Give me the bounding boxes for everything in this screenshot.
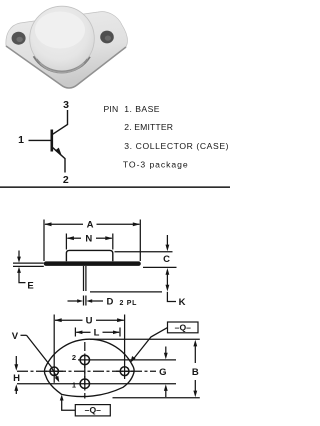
dim C extension line (cap top) [115,251,173,253]
svg-text:N: N [85,234,92,245]
dim N dimension line [67,237,81,239]
right hole crosshair [116,370,134,372]
side view: pin [83,266,85,291]
dim G top arrowhead [164,353,168,360]
svg-text:–Q–: –Q– [175,323,191,333]
side view: can cap [66,250,112,261]
left hole crosshair [46,370,64,372]
dim G arrow shafts [165,347,167,354]
dim K arrow shaft [166,272,168,288]
dim K bracket [167,292,176,302]
pin end extension line [90,291,162,293]
dim D left arrowhead [77,299,83,303]
dim U extension line right [124,315,126,380]
pin 1 circle [80,379,89,388]
svg-text:3: 3 [63,99,69,111]
photo: can bottom rim [37,59,88,72]
photo: right mounting hole [100,31,114,44]
dim L extension tick right [119,328,121,337]
dim N right arrowhead [105,236,112,240]
photo: metal can [30,6,95,71]
svg-text:G: G [159,367,166,378]
svg-text:K: K [179,297,186,308]
separator line [0,186,230,188]
svg-text:H: H [13,373,20,384]
dim A right arrowhead [133,222,140,226]
pins crosshair vertical [84,355,86,390]
dim A extension line right [139,220,141,262]
dim B arrow shafts [194,345,196,363]
dim L dimension line [76,331,90,333]
svg-text:3. COLLECTOR (CASE): 3. COLLECTOR (CASE) [124,141,229,151]
dim N extension tick left [65,234,67,250]
bottom view: flange outline [45,339,135,396]
dim L left arrowhead [76,331,83,335]
transistor symbol: base lead (pin 1) [29,139,52,141]
svg-text:C: C [163,254,170,265]
svg-text:TO-3 package: TO-3 package [123,159,189,169]
photo: flange lower edge shadow [6,46,126,88]
datum Q (bottom) leader [62,397,76,411]
dim C arrowhead [166,245,170,252]
dim L extension tick left [74,328,76,337]
dim V leader dash [21,334,27,336]
dim E bottom arrowhead [17,267,21,273]
svg-text:PIN: PIN [104,104,119,114]
dim B extension line bottom [113,397,200,399]
svg-text:L: L [94,328,100,339]
svg-text:D: D [107,297,114,308]
svg-text:–Q–: –Q– [85,405,101,415]
transistor symbol: emitter lead (pin 2) [52,147,65,173]
dim E top arrowhead [17,257,21,263]
svg-text:2: 2 [63,174,69,186]
side view: flange [44,261,141,266]
dim H bottom arrowhead [14,384,18,391]
dim B top arrowhead [193,340,197,347]
svg-text:2 PL: 2 PL [120,300,138,307]
photo: left mounting hole [12,32,26,45]
photo: can top highlight [35,12,85,49]
dim L right arrowhead [113,331,120,335]
datum Q (top) leader [133,328,168,360]
svg-text:1: 1 [18,134,24,146]
right mounting hole [120,367,129,376]
dim A extension line left [43,220,45,262]
dim U left arrowhead [54,318,61,322]
dim H arrow shafts [15,356,17,365]
dim G bottom arrowhead [164,384,168,391]
pin 2 circle [80,355,89,364]
svg-text:B: B [192,367,199,378]
svg-text:1. BASE: 1. BASE [124,104,160,114]
vertical centerline through pins [84,342,86,399]
dim K top arrowhead [166,268,170,275]
transistor symbol: base bar [50,130,53,152]
dim U dimension line [55,319,83,321]
svg-text:2. EMITTER: 2. EMITTER [124,122,173,132]
dim B bottom arrowhead [193,391,197,398]
pin 1 crosshair / dim G + H extension line [17,383,176,385]
svg-text:2: 2 [72,353,76,362]
left mounting hole [50,367,59,376]
dim A left arrowhead [44,222,51,226]
dim D dimension lines [68,300,78,302]
dim B extension line top [90,338,200,340]
dim E bracket [19,279,26,283]
dim C arrow shaft [166,235,168,247]
pin 2 crosshair / dim G extension line [78,359,176,361]
svg-text:E: E [27,281,33,292]
transistor symbol: emitter arrow [55,148,62,157]
svg-text:V: V [12,331,19,342]
dim E extension lines [13,262,44,264]
datum Q (top) box [168,322,199,333]
photo: TO-3 package flange [6,12,128,88]
datum Q top leader arrowhead [130,356,135,363]
datum Q bottom leader arrowhead [60,395,64,401]
dim V leader line [27,335,58,378]
dim H top arrowhead [14,364,18,371]
seating plane extension line [143,266,177,268]
dim N left arrowhead [67,236,74,240]
photo: can rim shadow [34,56,90,72]
transistor symbol: collector lead (pin 3) [52,110,68,135]
svg-text:1: 1 [72,380,76,389]
dim E arrow shafts [18,251,20,259]
dim V leader arrowhead [55,376,60,382]
svg-text:A: A [87,220,94,231]
dim K bottom arrowhead [166,285,170,292]
dim D extension lines [83,296,85,306]
dim D right arrowhead [86,299,92,303]
datum Q (bottom) box [75,405,110,416]
svg-text:U: U [86,316,93,327]
dim N extension tick right [112,234,114,250]
horizontal centerline [17,370,156,372]
dim A dimension line [45,223,83,225]
dim U right arrowhead [117,318,124,322]
dim U extension line left [53,315,55,383]
